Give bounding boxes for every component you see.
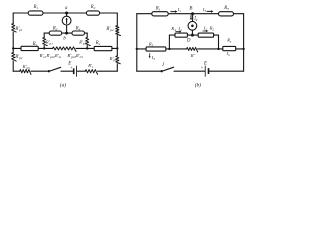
wire: switch to battery (a): [61, 70, 73, 72]
svg-text:R′p2: R′p2: [14, 55, 23, 60]
current arrow I1: [171, 10, 178, 13]
svg-text:(b): (b): [195, 82, 201, 89]
node b: [65, 32, 68, 35]
galvanometer G (a): [62, 16, 71, 25]
svg-text:R4: R4: [75, 27, 81, 32]
resistor R1 (b top box): [152, 12, 168, 16]
svg-text:B: B: [189, 7, 192, 12]
wire: outer left bottom (a): [12, 61, 14, 71]
svg-text:R1: R1: [155, 7, 161, 12]
wire: bottom to switch (a): [31, 70, 49, 72]
svg-text:R3: R3: [52, 27, 58, 32]
svg-text:J: J: [162, 63, 165, 68]
wire: outer right middle (a): [116, 36, 118, 56]
svg-text:R′pe3R′e3: R′pe3R′e3: [66, 53, 83, 59]
wire: outer left middle (a): [12, 32, 14, 53]
svg-text:R2: R2: [209, 25, 215, 31]
svg-text:R2: R2: [90, 5, 96, 10]
node junction right rail: [116, 47, 118, 49]
svg-text:b: b: [63, 36, 66, 41]
current arrow I4: [176, 31, 182, 33]
current arrow I2: [203, 30, 208, 32]
wire: bottom (b): [137, 70, 162, 72]
wire: inner top rail (a): [44, 32, 87, 34]
resistor R2 (a top right box): [86, 11, 99, 15]
resistor R3 (a inner left box): [49, 31, 62, 35]
svg-text:D: D: [186, 38, 191, 43]
resistor R'a3 (inner right zigzag): [86, 37, 91, 45]
node junction D-row left corner: [168, 48, 170, 50]
wire: outer left upper (a): [12, 13, 14, 24]
svg-text:R1: R1: [33, 5, 39, 10]
svg-text:+: +: [70, 66, 72, 70]
svg-text:+: +: [201, 66, 203, 70]
wire: D-row left corner down: [168, 35, 170, 49]
resistor chain on middle rail (zigzag): [53, 47, 76, 52]
wire: battery to corner (b): [209, 70, 243, 72]
resistor R3 (b top right box): [219, 12, 234, 16]
switch S (a): [48, 67, 61, 72]
battery E (a): [73, 66, 77, 77]
resistor R4 (a inner right box): [72, 31, 85, 35]
svg-text:R′p5: R′p5: [22, 64, 30, 70]
svg-text:R3: R3: [223, 6, 229, 11]
svg-text:R′e1R′pe2R′A: R′e1R′pe2R′A: [39, 53, 62, 59]
svg-text:I5: I5: [151, 55, 155, 61]
node junction left rail: [12, 47, 14, 49]
resistor R4 (b D-row left box): [175, 33, 187, 37]
node B: [191, 12, 194, 15]
wire: inner right vertical lower (a): [86, 46, 88, 49]
svg-text:E: E: [203, 61, 207, 66]
wire: lower rail right segment (b): [198, 48, 244, 50]
svg-text:R′p3: R′p3: [78, 40, 86, 46]
resistor Rx (b lower rail right box): [223, 46, 236, 50]
resistor Ry (a middle rail box): [21, 46, 38, 50]
wire: D-row rail (b): [169, 34, 218, 36]
node a: [65, 12, 68, 15]
wire: outer right (b): [243, 14, 245, 71]
wire: middle rail right segment (a): [76, 47, 117, 49]
svg-text:Ry: Ry: [32, 42, 38, 47]
wire: D-row right corner down: [218, 35, 220, 49]
resistor R1 (a top left box): [28, 11, 43, 15]
wire: lower rail (b): [137, 48, 187, 50]
wire: battery to R'i (a): [77, 70, 85, 72]
resistor R'p5 (bottom left zigzag): [20, 70, 31, 75]
resistor R'a1 (inner left zigzag): [43, 37, 48, 45]
svg-text:Rx: Rx: [95, 41, 101, 46]
node D: [191, 34, 194, 37]
wire: node B down to current source: [192, 14, 194, 22]
svg-text:Ix: Ix: [226, 51, 230, 57]
wire: current source to node D: [191, 30, 193, 35]
wire: outer right bottom (a): [116, 64, 118, 71]
resistor R'p2 (left outer lower, zigzag): [12, 53, 17, 62]
resistor R'p6 (right outer lower, zigzag): [116, 56, 121, 64]
switch J (b): [161, 67, 174, 72]
node junction left wire / lower rail (b): [136, 48, 138, 50]
wire: outer top (a): [13, 12, 117, 14]
wire: outer top (b): [137, 13, 244, 15]
svg-text:I1: I1: [177, 7, 181, 13]
wire: node a to galvanometer: [66, 13, 68, 16]
svg-text:I3: I3: [202, 7, 206, 13]
wire: middle rail left segment (a): [13, 47, 52, 49]
resistor R2 (b D-row right box): [198, 33, 213, 37]
wire: inner left vertical (a): [43, 33, 45, 37]
wire: inner left vertical lower (a): [43, 46, 45, 49]
wire: outer left (b): [136, 14, 138, 71]
resistor R'i internal (bottom zigzag): [85, 70, 97, 75]
node junction right wire / lower rail (b): [242, 48, 244, 50]
svg-text:R′i: R′i: [87, 63, 93, 69]
wire: inner right vertical (a): [86, 33, 88, 37]
resistor Rx (a middle rail right box): [94, 46, 112, 50]
svg-text:R′p4: R′p4: [105, 27, 114, 32]
svg-text:Ig: Ig: [193, 16, 198, 21]
wire: galvanometer to node b: [66, 25, 68, 33]
wire: outer right upper (a): [116, 13, 118, 26]
resistor R'p4 (right outer, zigzag): [116, 26, 121, 36]
node junction inner-right rail: [86, 47, 88, 49]
svg-text:Rx: Rx: [226, 38, 232, 44]
current source (b circle with dot): [188, 21, 197, 30]
resistor R' (b lower rail zigzag): [187, 47, 198, 52]
wire: bottom left segment (a): [13, 70, 20, 72]
node junction D-row right corner: [217, 48, 219, 50]
svg-text:R4: R4: [170, 26, 176, 32]
svg-text:(a): (a): [60, 82, 66, 89]
resistor R5 (b lower rail left box): [146, 47, 166, 51]
battery E (b): [205, 66, 210, 77]
resistor R'p1 (left outer, zigzag): [12, 24, 17, 33]
svg-text:R′p1: R′p1: [14, 27, 23, 32]
wire: bottom right segment (a): [98, 70, 118, 72]
node junction inner-left rail: [43, 47, 45, 49]
current arrow Ig (down): [190, 15, 192, 20]
current arrow I5 (down): [149, 54, 151, 59]
svg-text:a: a: [65, 6, 68, 11]
wire: switch to battery (b): [174, 70, 205, 72]
svg-text:R′: R′: [190, 53, 196, 58]
